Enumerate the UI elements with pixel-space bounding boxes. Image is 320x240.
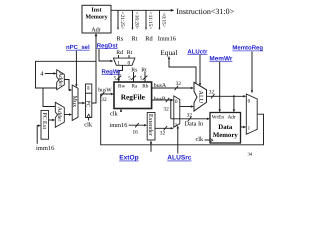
svg-text:Mux: Mux bbox=[71, 96, 78, 109]
svg-text:Ra: Ra bbox=[132, 84, 138, 90]
wire clk to RegFile bbox=[120, 109, 122, 113]
svg-text:32: 32 bbox=[164, 106, 170, 112]
svg-text:Extender: Extender bbox=[147, 114, 154, 136]
wire mux M1 to PC bbox=[78, 102, 86, 104]
svg-text:16: 16 bbox=[133, 129, 139, 135]
svg-text:32: 32 bbox=[101, 97, 107, 103]
register Extender bbox=[147, 113, 155, 141]
svg-text:Rs: Rs bbox=[117, 36, 124, 43]
svg-text:imm16: imm16 bbox=[110, 122, 128, 129]
wire Rd to mux M2 bbox=[118, 55, 120, 58]
wire imm16 to PC Ext bbox=[37, 124, 41, 143]
svg-text:Adder: Adder bbox=[56, 107, 63, 122]
svg-text:Rd: Rd bbox=[145, 36, 153, 43]
wire to Data In bbox=[171, 117, 210, 121]
svg-text:Rt: Rt bbox=[127, 50, 133, 56]
svg-text:Rb: Rb bbox=[142, 84, 148, 90]
svg-text:00: 00 bbox=[86, 86, 91, 90]
svg-text:Memory: Memory bbox=[213, 132, 239, 139]
wire adder A1 to mux bbox=[64, 80, 72, 92]
svg-text:Rt: Rt bbox=[132, 36, 138, 43]
wire Extender to mux M3 bbox=[155, 126, 174, 130]
svg-text:imm16: imm16 bbox=[36, 145, 55, 152]
svg-text:Data In: Data In bbox=[185, 121, 205, 128]
svg-text:Equal: Equal bbox=[160, 48, 177, 57]
svg-text:1: 1 bbox=[117, 61, 120, 67]
wire ExtOp to Extender bbox=[150, 140, 152, 151]
svg-text:<21:25>: <21:25> bbox=[119, 12, 125, 30]
svg-text:Rs: Rs bbox=[131, 67, 138, 73]
svg-text:32: 32 bbox=[187, 113, 193, 119]
svg-text:MemWr: MemWr bbox=[209, 55, 232, 62]
wire Rt to Rb bbox=[144, 72, 146, 82]
wire ALU Equal output bbox=[168, 56, 196, 84]
register PC bbox=[85, 84, 92, 118]
label bus width 5 (Ra) bbox=[131, 76, 136, 80]
wire mux M3 to ALU bbox=[180, 105, 194, 107]
svg-text:PC Ext: PC Ext bbox=[41, 113, 47, 130]
svg-text:WrEn: WrEn bbox=[212, 115, 225, 121]
mux M1 (nPC_sel) bbox=[71, 85, 78, 121]
register PC Ext bbox=[41, 110, 49, 139]
svg-text:Instruction<31:0>: Instruction<31:0> bbox=[176, 7, 234, 16]
svg-text:Data: Data bbox=[218, 124, 233, 131]
wire busW return path bbox=[101, 94, 264, 145]
label bus width 5 (Rb) bbox=[143, 76, 148, 80]
wire PC to Adr bbox=[92, 33, 98, 103]
adder A2 (branch target) bbox=[55, 102, 64, 127]
wire busB to mux M3 bbox=[152, 98, 174, 102]
svg-text:Imm16: Imm16 bbox=[158, 36, 176, 43]
svg-text:MemtoReg: MemtoReg bbox=[232, 45, 263, 52]
svg-text:ALUctr: ALUctr bbox=[187, 48, 208, 55]
wire ALUctr to ALU bbox=[199, 55, 201, 87]
svg-text:Rw: Rw bbox=[118, 84, 125, 90]
Inst Memory U1 bbox=[82, 5, 111, 33]
svg-text:Memory: Memory bbox=[85, 14, 107, 20]
wire Rs to Ra bbox=[133, 72, 135, 82]
wire mux M2 to Rw bbox=[119, 65, 123, 80]
svg-text:busW: busW bbox=[98, 86, 112, 93]
wire adder A2 to mux bbox=[64, 113, 72, 115]
wire Imm16 tap bbox=[159, 10, 161, 30]
wire busW into RegFile bbox=[101, 92, 114, 96]
svg-text:ExtOp: ExtOp bbox=[119, 155, 138, 162]
wire busA to ALU bbox=[152, 86, 194, 90]
label bus width 5 (Rw) bbox=[117, 76, 122, 80]
wire PC Ext to adder A2 bbox=[49, 119, 56, 121]
svg-text:Rt: Rt bbox=[141, 67, 147, 73]
wire Data Out to mux M4 bbox=[241, 126, 247, 128]
svg-text:Adr: Adr bbox=[228, 115, 236, 121]
svg-text:busB: busB bbox=[154, 96, 166, 103]
svg-text:32: 32 bbox=[176, 81, 182, 87]
svg-text:RegDst: RegDst bbox=[97, 42, 118, 49]
wire Rt to mux M2 bbox=[128, 55, 130, 58]
wire ALU output bbox=[207, 94, 247, 98]
memory U3 Data Memory bbox=[210, 113, 241, 144]
wire 4 to adder bbox=[45, 72, 57, 74]
wire PC feedback bbox=[36, 61, 97, 88]
wire clk to PC bbox=[88, 118, 90, 121]
svg-text:ALU: ALU bbox=[197, 91, 204, 104]
svg-text:clk: clk bbox=[110, 111, 119, 118]
mux M3 (ALUSrc) bbox=[174, 96, 180, 128]
wire busB tap down bbox=[170, 99, 172, 119]
wire Rs tap bbox=[117, 10, 119, 30]
wire ALU out to Adr bbox=[233, 96, 235, 112]
wire MemtoReg to mux M4 bbox=[251, 52, 253, 94]
svg-text:Adder: Adder bbox=[57, 72, 64, 87]
svg-text:Rd: Rd bbox=[116, 49, 123, 56]
wire clk to Data Memory bbox=[205, 139, 210, 141]
adder A1 (PC+4) bbox=[57, 70, 65, 90]
svg-text:RegWr: RegWr bbox=[102, 68, 122, 75]
wire RegDst to mux M2 bbox=[99, 49, 113, 63]
svg-text:PC: PC bbox=[85, 101, 91, 108]
wire instruction bus bbox=[111, 9, 174, 12]
wire ALUSrc to mux M3 bbox=[177, 125, 179, 153]
svg-text:clk: clk bbox=[84, 121, 93, 128]
svg-text:<16:20>: <16:20> bbox=[133, 12, 139, 30]
svg-text:<0:15>: <0:15> bbox=[160, 13, 166, 28]
wire Rt tap bbox=[132, 10, 134, 30]
svg-text:32: 32 bbox=[160, 131, 166, 137]
mux M2 (RegDst) bbox=[113, 58, 134, 66]
wire imm16 to Extender bbox=[129, 123, 148, 127]
op-amp ALU bbox=[194, 82, 207, 111]
svg-text:0: 0 bbox=[128, 61, 131, 67]
svg-text:nPC_sel: nPC_sel bbox=[66, 44, 90, 51]
svg-text:Adr: Adr bbox=[91, 27, 101, 34]
wire MemWr to WrEn bbox=[219, 62, 221, 113]
wire PC feedback branch to bottom adder bbox=[43, 88, 55, 107]
mux M4 (MemtoReg) bbox=[246, 94, 257, 134]
svg-text:ALUSrc: ALUSrc bbox=[167, 155, 192, 162]
register file U2 bbox=[114, 82, 152, 109]
svg-text:RegFile: RegFile bbox=[121, 93, 146, 102]
node junction ALU out to Adr bbox=[233, 95, 235, 97]
svg-text:Inst: Inst bbox=[91, 8, 101, 14]
svg-text:32: 32 bbox=[209, 90, 215, 96]
wire Rd tap bbox=[145, 10, 147, 30]
svg-text:<11:15>: <11:15> bbox=[147, 12, 153, 30]
svg-text:34: 34 bbox=[248, 151, 253, 156]
svg-text:clk: clk bbox=[196, 136, 205, 143]
wire nPC_sel to mux M1 bbox=[75, 51, 77, 87]
